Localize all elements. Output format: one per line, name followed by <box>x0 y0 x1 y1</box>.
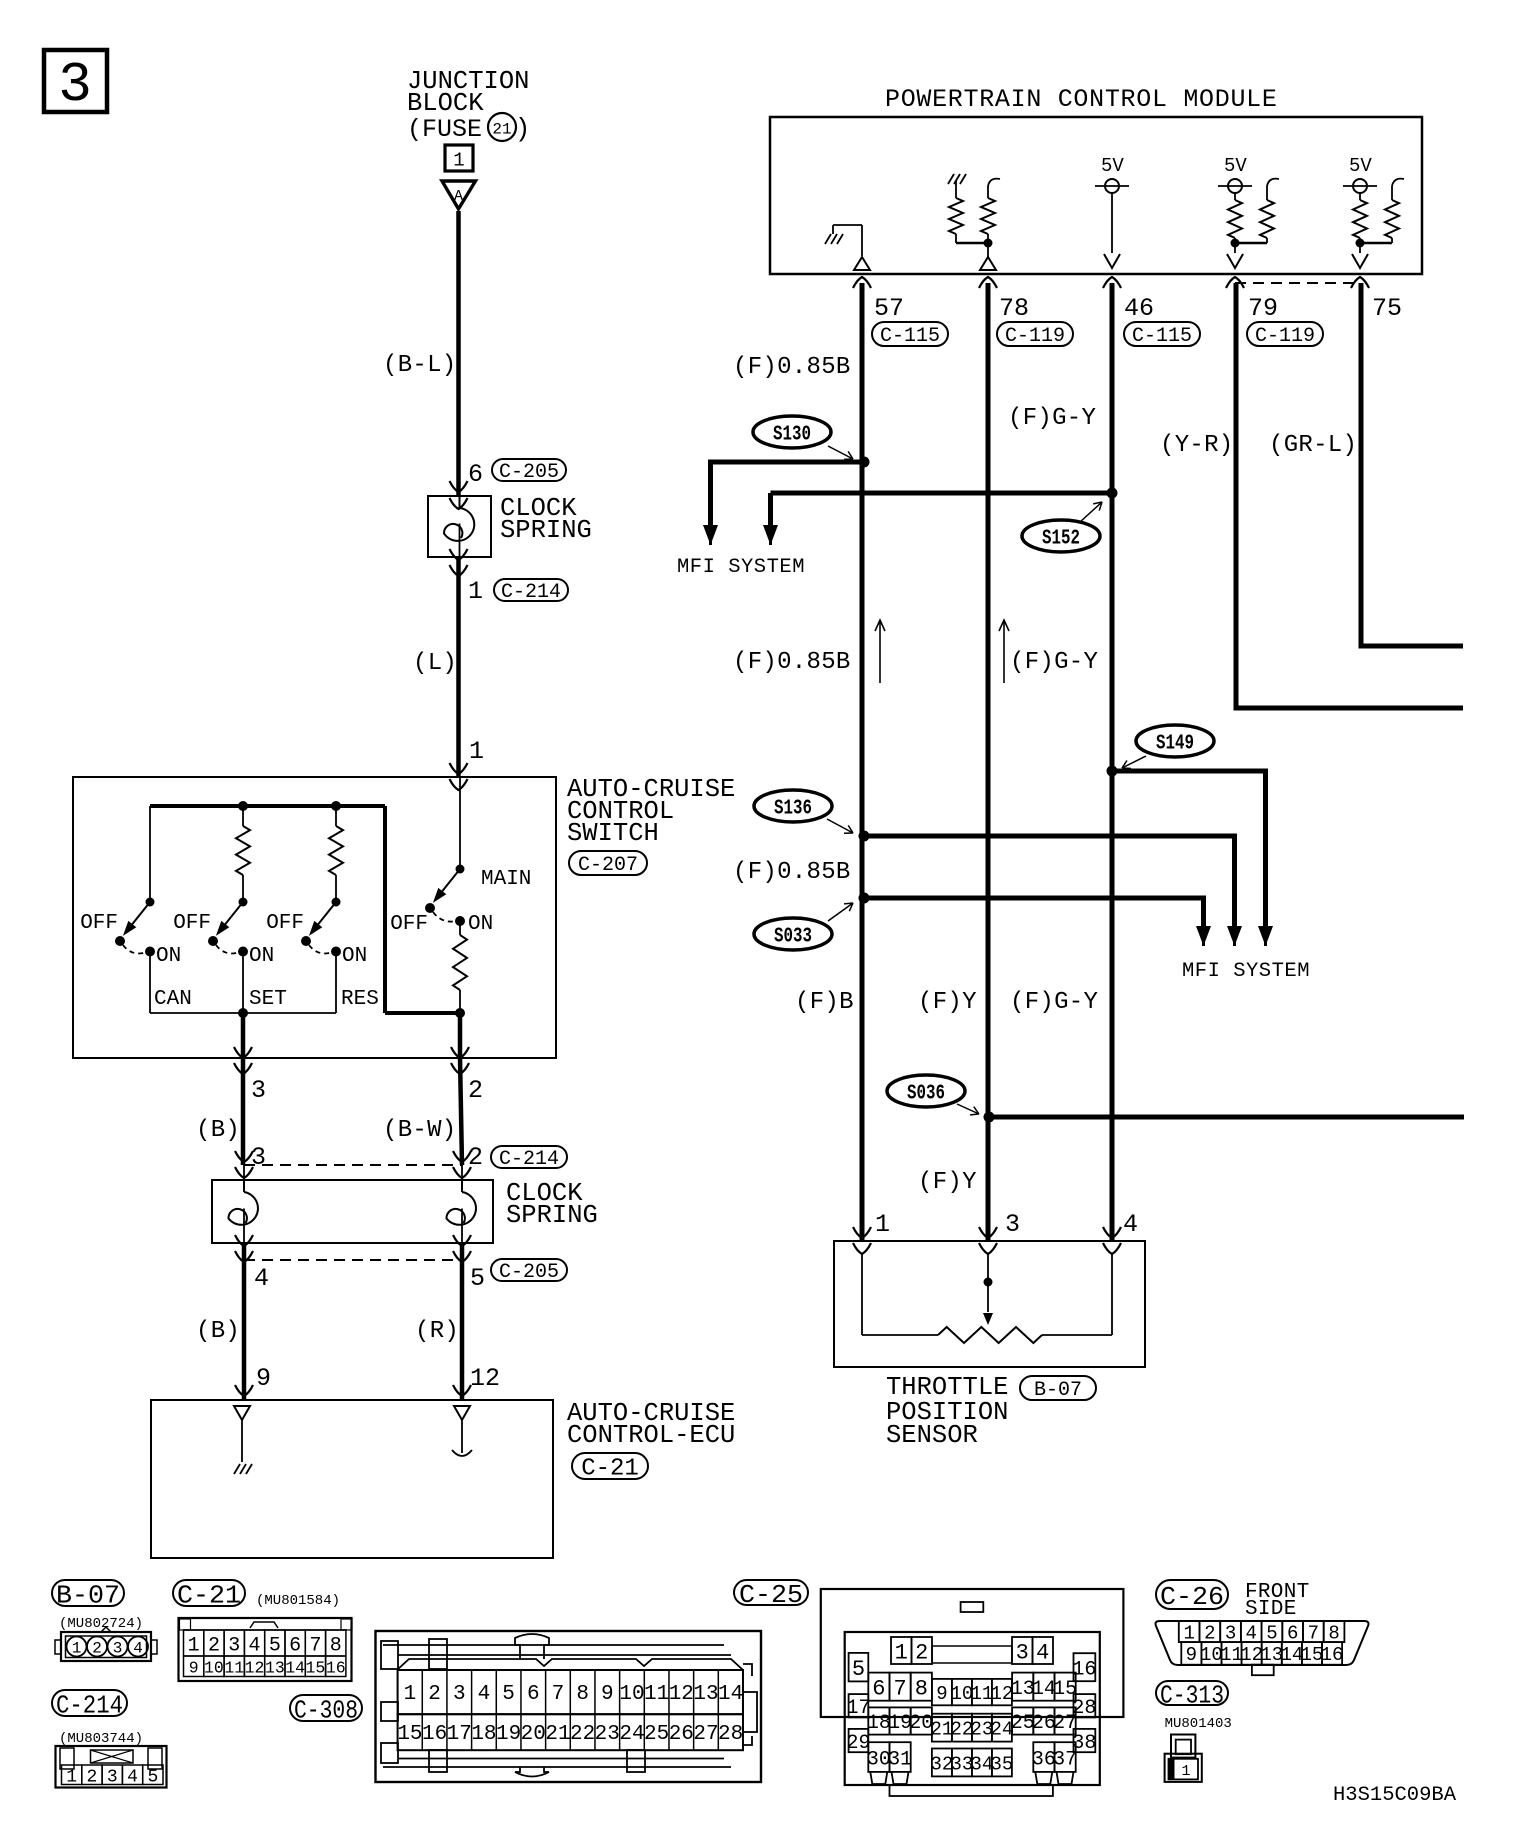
svg-text:3: 3 <box>1005 1210 1020 1239</box>
svg-text:ON: ON <box>249 945 274 968</box>
svg-text:(R): (R) <box>415 1318 459 1345</box>
svg-text:(F)0.85B: (F)0.85B <box>733 354 851 381</box>
svg-text:11: 11 <box>224 1658 244 1677</box>
svg-text:(B): (B) <box>196 1117 240 1144</box>
svg-text:(L): (L) <box>413 650 457 677</box>
svg-text:5V: 5V <box>1224 155 1247 177</box>
svg-text:2: 2 <box>428 1683 441 1706</box>
svg-text:OFF: OFF <box>173 912 211 935</box>
svg-text:S036: S036 <box>907 1083 945 1106</box>
svg-text:16: 16 <box>422 1723 447 1746</box>
svg-text:1: 1 <box>1183 1622 1194 1644</box>
svg-text:C-205: C-205 <box>499 461 559 484</box>
svg-text:MFI SYSTEM: MFI SYSTEM <box>1182 960 1310 983</box>
svg-text:C-207: C-207 <box>578 854 638 877</box>
svg-text:S033: S033 <box>774 926 812 949</box>
svg-text:15: 15 <box>306 1658 326 1677</box>
svg-text:MFI SYSTEM: MFI SYSTEM <box>677 556 805 579</box>
svg-text:9: 9 <box>1186 1644 1197 1666</box>
svg-text:CONTROL-ECU: CONTROL-ECU <box>567 1421 735 1450</box>
svg-text:78: 78 <box>999 294 1029 323</box>
svg-text:S152: S152 <box>1042 528 1080 551</box>
svg-text:5V: 5V <box>1101 155 1124 177</box>
svg-text:B-07: B-07 <box>56 1580 120 1610</box>
svg-text:(B-L): (B-L) <box>383 352 457 379</box>
svg-text:SPRING: SPRING <box>500 516 592 545</box>
svg-text:B-07: B-07 <box>1034 1379 1082 1402</box>
svg-text:C-119: C-119 <box>1005 325 1065 348</box>
svg-text:26: 26 <box>669 1723 694 1746</box>
svg-text:C-313: C-313 <box>1160 1680 1224 1710</box>
svg-text:12: 12 <box>470 1364 500 1393</box>
svg-text:(F)G-Y: (F)G-Y <box>1010 989 1098 1016</box>
svg-text:): ) <box>515 115 530 144</box>
svg-text:(F)0.85B: (F)0.85B <box>733 859 851 886</box>
svg-text:22: 22 <box>570 1723 595 1746</box>
svg-text:14: 14 <box>718 1683 743 1706</box>
svg-text:3: 3 <box>453 1683 466 1706</box>
svg-text:2: 2 <box>87 1768 98 1788</box>
svg-text:9: 9 <box>936 1683 947 1705</box>
svg-text:8: 8 <box>330 1634 342 1657</box>
svg-text:S130: S130 <box>773 424 811 447</box>
svg-text:(B-W): (B-W) <box>383 1117 457 1144</box>
svg-text:C-214: C-214 <box>56 1690 123 1720</box>
svg-text:OFF: OFF <box>390 913 428 936</box>
svg-text:3: 3 <box>1016 1640 1029 1665</box>
svg-text:18: 18 <box>471 1723 496 1746</box>
svg-text:13: 13 <box>693 1683 718 1706</box>
svg-text:6: 6 <box>527 1683 540 1706</box>
svg-text:10: 10 <box>619 1683 644 1706</box>
svg-text:C-119: C-119 <box>1255 325 1315 348</box>
svg-text:(F)0.85B: (F)0.85B <box>733 649 851 676</box>
svg-text:17: 17 <box>447 1723 472 1746</box>
svg-text:16: 16 <box>326 1658 346 1677</box>
svg-text:75: 75 <box>1372 294 1402 323</box>
svg-text:5: 5 <box>147 1768 158 1788</box>
svg-text:8: 8 <box>915 1677 928 1702</box>
svg-text:7: 7 <box>1308 1622 1319 1644</box>
svg-text:21: 21 <box>492 121 511 139</box>
svg-text:BLOCK: BLOCK <box>407 89 484 118</box>
svg-text:5: 5 <box>269 1634 281 1657</box>
svg-text:4: 4 <box>478 1683 491 1706</box>
svg-text:2: 2 <box>92 1640 102 1658</box>
svg-text:POWERTRAIN CONTROL MODULE: POWERTRAIN CONTROL MODULE <box>885 85 1278 114</box>
svg-text:6: 6 <box>872 1677 885 1702</box>
svg-text:OFF: OFF <box>80 912 118 935</box>
svg-text:S149: S149 <box>1156 733 1194 756</box>
svg-text:1: 1 <box>66 1768 77 1788</box>
svg-text:S136: S136 <box>774 798 812 821</box>
svg-text:ON: ON <box>468 913 493 936</box>
svg-text:5: 5 <box>852 1657 865 1682</box>
svg-text:C-21: C-21 <box>581 1456 639 1483</box>
svg-text:RES: RES <box>341 988 379 1011</box>
svg-text:11: 11 <box>644 1683 669 1706</box>
svg-text:ON: ON <box>156 945 181 968</box>
svg-text:12: 12 <box>669 1683 694 1706</box>
svg-text:1: 1 <box>72 1640 82 1658</box>
svg-text:25: 25 <box>644 1723 669 1746</box>
svg-text:(F)G-Y: (F)G-Y <box>1010 649 1098 676</box>
svg-text:8: 8 <box>1328 1622 1339 1644</box>
svg-text:7: 7 <box>552 1683 565 1706</box>
svg-text:1: 1 <box>188 1634 200 1657</box>
svg-text:H3S15C09BA: H3S15C09BA <box>1333 1784 1457 1807</box>
svg-text:1: 1 <box>469 737 484 766</box>
svg-text:MAIN: MAIN <box>481 868 531 891</box>
svg-text:C-214: C-214 <box>499 1148 559 1171</box>
svg-text:46: 46 <box>1124 294 1154 323</box>
svg-text:14: 14 <box>285 1658 305 1677</box>
svg-text:15: 15 <box>397 1723 422 1746</box>
svg-text:CAN: CAN <box>154 988 192 1011</box>
svg-text:35: 35 <box>990 1753 1013 1775</box>
svg-text:C-308: C-308 <box>294 1695 358 1725</box>
svg-text:3: 3 <box>228 1634 240 1657</box>
svg-text:21: 21 <box>545 1723 570 1746</box>
svg-text:5V: 5V <box>1349 155 1372 177</box>
svg-text:SIDE: SIDE <box>1245 1598 1297 1621</box>
svg-text:37: 37 <box>1053 1748 1077 1771</box>
svg-text:4: 4 <box>127 1768 138 1788</box>
svg-text:4: 4 <box>1036 1640 1049 1665</box>
svg-text:6: 6 <box>289 1634 301 1657</box>
svg-text:12: 12 <box>245 1658 265 1677</box>
svg-text:C-214: C-214 <box>501 581 561 604</box>
svg-text:4: 4 <box>249 1634 261 1657</box>
svg-text:8: 8 <box>576 1683 589 1706</box>
svg-text:2: 2 <box>1204 1622 1215 1644</box>
svg-text:OFF: OFF <box>266 912 304 935</box>
svg-text:5: 5 <box>470 1264 485 1293</box>
svg-text:2: 2 <box>915 1640 928 1665</box>
svg-text:57: 57 <box>874 294 904 323</box>
svg-text:9: 9 <box>189 1658 199 1677</box>
svg-text:28: 28 <box>718 1723 743 1746</box>
svg-text:(B): (B) <box>196 1318 240 1345</box>
svg-text:4: 4 <box>133 1640 143 1658</box>
svg-text:(F)Y: (F)Y <box>918 1169 977 1196</box>
svg-text:3: 3 <box>251 1076 266 1105</box>
svg-text:9: 9 <box>256 1364 271 1393</box>
svg-text:5: 5 <box>502 1683 515 1706</box>
svg-text:C-25: C-25 <box>739 1580 803 1610</box>
svg-text:10: 10 <box>204 1658 224 1677</box>
svg-text:C-26: C-26 <box>1160 1582 1224 1612</box>
svg-text:C-21: C-21 <box>177 1580 241 1610</box>
svg-text:C-115: C-115 <box>1132 325 1192 348</box>
svg-text:79: 79 <box>1248 294 1278 323</box>
svg-text:6: 6 <box>468 460 483 489</box>
svg-text:1: 1 <box>875 1210 890 1239</box>
svg-text:2: 2 <box>208 1634 220 1657</box>
svg-text:1: 1 <box>1181 1763 1190 1780</box>
svg-text:13: 13 <box>265 1658 285 1677</box>
svg-text:4: 4 <box>1123 1210 1138 1239</box>
svg-text:7: 7 <box>893 1677 906 1702</box>
svg-text:31: 31 <box>888 1748 912 1771</box>
svg-text:4: 4 <box>254 1264 269 1293</box>
svg-text:(Y-R): (Y-R) <box>1160 432 1234 459</box>
svg-text:27: 27 <box>693 1723 718 1746</box>
svg-text:C-115: C-115 <box>880 325 940 348</box>
svg-text:(F)G-Y: (F)G-Y <box>1008 405 1096 432</box>
svg-text:6: 6 <box>1287 1622 1298 1644</box>
svg-text:ON: ON <box>342 945 367 968</box>
svg-text:C-205: C-205 <box>499 1261 559 1284</box>
svg-text:1: 1 <box>468 577 483 606</box>
svg-text:(MU801584): (MU801584) <box>256 1593 340 1609</box>
svg-text:1: 1 <box>895 1640 908 1665</box>
svg-text:9: 9 <box>601 1683 614 1706</box>
svg-text:23: 23 <box>595 1723 620 1746</box>
svg-text:3: 3 <box>1225 1622 1236 1644</box>
svg-text:2: 2 <box>468 1076 483 1105</box>
svg-text:16: 16 <box>1321 1644 1344 1666</box>
svg-text:(MU802724): (MU802724) <box>59 1616 143 1632</box>
svg-text:SWITCH: SWITCH <box>567 819 659 848</box>
svg-text:SENSOR: SENSOR <box>886 1421 978 1450</box>
svg-text:24: 24 <box>619 1723 644 1746</box>
svg-text:4: 4 <box>1246 1622 1257 1644</box>
svg-text:(GR-L): (GR-L) <box>1269 432 1357 459</box>
svg-text:SET: SET <box>249 988 287 1011</box>
svg-text:(MU803744): (MU803744) <box>59 1731 143 1747</box>
svg-text:5: 5 <box>1266 1622 1277 1644</box>
svg-text:3: 3 <box>107 1768 118 1788</box>
svg-text:3: 3 <box>113 1640 123 1658</box>
svg-text:20: 20 <box>521 1723 546 1746</box>
svg-text:7: 7 <box>309 1634 321 1657</box>
svg-text:SPRING: SPRING <box>506 1201 598 1230</box>
svg-text:(F)B: (F)B <box>795 989 854 1016</box>
svg-text:A: A <box>454 188 463 205</box>
svg-text:19: 19 <box>496 1723 521 1746</box>
svg-text:3: 3 <box>58 53 92 117</box>
svg-text:1: 1 <box>453 150 464 172</box>
svg-text:MU801403: MU801403 <box>1165 1716 1232 1732</box>
svg-text:1: 1 <box>404 1683 417 1706</box>
svg-text:(F)Y: (F)Y <box>918 989 977 1016</box>
svg-text:(FUSE: (FUSE <box>407 115 482 144</box>
